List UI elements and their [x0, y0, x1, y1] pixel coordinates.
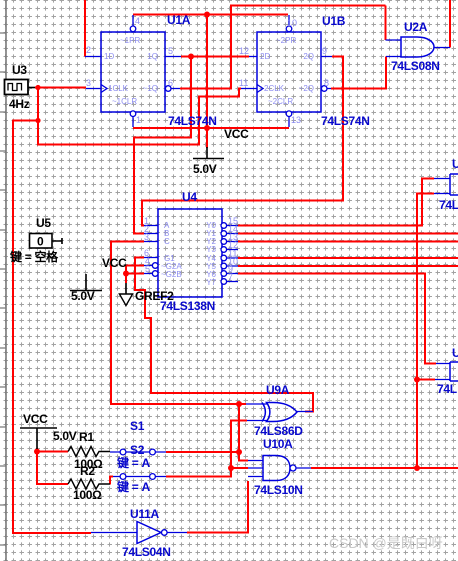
wire 2Q to U4 A — [142, 57, 343, 226]
decoder U4 — [144, 209, 238, 297]
svg-text:~1PR: ~1PR — [120, 36, 140, 45]
wire U2A output up — [449, 0, 451, 48]
wire 1D from top edge — [84, 0, 86, 57]
svg-text:4: 4 — [135, 16, 140, 26]
svg-text:5: 5 — [168, 46, 173, 56]
svg-text:12: 12 — [239, 46, 249, 56]
power VCC2 — [70, 274, 102, 291]
wire 1Q to 2D y=56 — [181, 56, 249, 58]
svg-text:5.0V: 5.0V — [71, 289, 95, 303]
svg-text:U1A: U1A — [167, 13, 191, 27]
svg-text:~2PR: ~2PR — [276, 36, 296, 45]
wire R2 to S2 jog — [110, 477, 113, 485]
power VCC3 — [20, 428, 57, 449]
svg-text:2D: 2D — [260, 52, 270, 61]
AND gate U2A — [386, 37, 451, 57]
wire U4 C net to XOR top input — [111, 242, 246, 405]
svg-text:74LS08N: 74LS08N — [391, 59, 440, 73]
svg-text:1: 1 — [136, 115, 141, 125]
svg-text:74LS10N: 74LS10N — [254, 483, 303, 497]
svg-text:R2: R2 — [80, 464, 95, 478]
svg-text:U: U — [452, 346, 458, 360]
svg-text:CSDN @是既白呀: CSDN @是既白呀 — [329, 535, 443, 551]
svg-text:VCC: VCC — [102, 256, 127, 270]
wire clock branch left drop — [13, 121, 91, 534]
svg-text:~1CLR: ~1CLR — [112, 97, 137, 106]
svg-text:3: 3 — [86, 78, 91, 88]
flip-flop U1A — [85, 15, 181, 127]
switch S1 — [110, 449, 166, 455]
wire U10A output east — [311, 467, 458, 469]
svg-text:4Hz: 4Hz — [9, 97, 30, 111]
svg-text:5.0V: 5.0V — [53, 429, 77, 443]
wire VCC preset/clear net y=14 — [133, 14, 288, 16]
svg-text:U5: U5 — [36, 216, 51, 230]
svg-text:键 = 空格: 键 = 空格 — [9, 249, 59, 264]
ground GREF2 — [119, 283, 132, 306]
svg-text:7: 7 — [228, 272, 233, 282]
svg-text:U4: U4 — [182, 190, 197, 204]
svg-text:键 = A: 键 = A — [116, 479, 150, 494]
svg-text:U: U — [452, 157, 458, 171]
svg-text:U11A: U11A — [130, 507, 159, 521]
wire clock to U1A CLK — [35, 87, 86, 89]
svg-text:0: 0 — [37, 235, 44, 249]
svg-text:2CLK: 2CLK — [264, 84, 285, 93]
svg-text:1D: 1D — [104, 52, 114, 61]
svg-text:74LS86D: 74LS86D — [254, 424, 303, 438]
svg-text:74LS74N: 74LS74N — [321, 114, 370, 128]
wire S1 to junction — [166, 451, 239, 453]
svg-text:~2Q: ~2Q — [299, 84, 314, 93]
svg-text:VCC: VCC — [224, 127, 249, 141]
svg-text:GREF2: GREF2 — [135, 289, 174, 303]
svg-text:8: 8 — [324, 78, 329, 88]
svg-text:U1B: U1B — [322, 14, 346, 28]
svg-text:S1: S1 — [130, 419, 145, 433]
wire U1A pin6 to U2A net: top run y=5 — [180, 6, 386, 89]
svg-text:74L: 74L — [439, 198, 458, 212]
resistor R1 — [68, 447, 110, 457]
wire U10A input2 — [231, 467, 248, 469]
wire clock branch to U1B CLK — [38, 88, 241, 145]
wire 1Q branch to U4 B — [134, 57, 191, 234]
svg-text:VCC: VCC — [23, 412, 48, 426]
svg-text:9: 9 — [322, 46, 327, 56]
svg-text:~G2B: ~G2B — [161, 270, 182, 279]
switch S2 — [113, 474, 166, 480]
svg-text:Y7: Y7 — [206, 278, 216, 287]
wire XOR top branch to U10A input1 — [239, 404, 248, 461]
flip-flop U1B — [239, 15, 332, 127]
svg-text:C: C — [164, 237, 170, 246]
svg-text:Y3: Y3 — [206, 245, 216, 254]
svg-text:1Q: 1Q — [147, 52, 158, 61]
svg-text:S2: S2 — [130, 443, 145, 457]
svg-text:~1Q: ~1Q — [143, 84, 158, 93]
resistor R2 — [68, 479, 110, 489]
wire Y4 east — [238, 257, 458, 259]
svg-text:6: 6 — [168, 78, 173, 88]
svg-text:2Q: 2Q — [303, 52, 314, 61]
NAND gate U10A — [248, 456, 311, 481]
svg-text:1CLK: 1CLK — [108, 84, 129, 93]
svg-text:5.0V: 5.0V — [193, 162, 217, 176]
inverter U11A — [91, 522, 187, 544]
wire XOR bottom input to S2 — [166, 421, 247, 477]
wire U10A output to right gates — [417, 194, 435, 469]
svg-text:3: 3 — [144, 232, 149, 242]
svg-text:10: 10 — [287, 18, 297, 28]
svg-text:74L: 74L — [437, 382, 457, 396]
wire VCC1 stem — [206, 128, 208, 148]
power VCC1 — [193, 147, 224, 159]
wire U11A output to U10A input3 — [187, 481, 248, 533]
svg-text:13: 13 — [291, 115, 301, 125]
svg-text:~2CLR: ~2CLR — [268, 97, 293, 106]
svg-text:U3: U3 — [12, 63, 27, 77]
wire U1B pin8 to U2A input2 — [331, 57, 386, 89]
svg-text:U9A: U9A — [266, 383, 290, 397]
wire Y0 to gate1 — [238, 179, 434, 226]
svg-text:2: 2 — [86, 45, 91, 55]
svg-text:100Ω: 100Ω — [73, 488, 102, 502]
svg-text:键 = A: 键 = A — [116, 455, 150, 470]
wire VCC drop x=207 — [206, 15, 208, 129]
wire Y6 to gate2 — [238, 274, 436, 364]
clock source U3 — [5, 80, 36, 95]
svg-text:11: 11 — [239, 78, 248, 88]
wire U4 G1 to XOR output — [135, 258, 313, 412]
wire G2A G2B ground net — [126, 266, 144, 284]
svg-text:74LS74N: 74LS74N — [168, 114, 217, 128]
wire U2A input1 drop — [385, 6, 387, 41]
wire Y5 east — [238, 265, 458, 267]
wire CLR line y=128 — [133, 127, 289, 129]
right edge gate 1 — [434, 174, 458, 195]
key U5 — [30, 234, 63, 249]
svg-text:5: 5 — [145, 264, 150, 274]
svg-text:U10A: U10A — [263, 437, 293, 451]
wire Y1 east — [238, 233, 458, 235]
wire Y2 east — [238, 241, 458, 243]
svg-text:U2A: U2A — [404, 20, 428, 34]
sheet border — [0, 0, 6, 561]
svg-text:R1: R1 — [79, 430, 94, 444]
svg-text:74LS04N: 74LS04N — [122, 545, 171, 559]
right edge gate 2 — [435, 362, 458, 381]
XOR gate U9A — [246, 403, 313, 422]
wire VCC3 to resistors — [37, 448, 68, 484]
